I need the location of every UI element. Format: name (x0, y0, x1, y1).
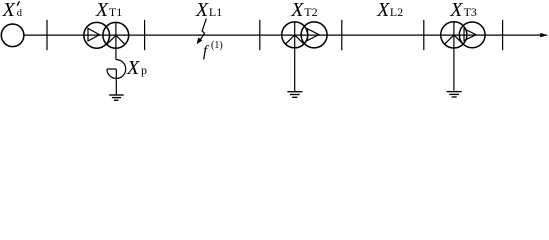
reactor Xp (107, 60, 126, 95)
fault arrow f(1) on line L1 (197, 19, 207, 45)
node: bus tick 5 (line L2 right end) (423, 20, 425, 50)
svg-text:L2: L2 (390, 5, 403, 19)
svg-text:f: f (203, 43, 210, 60)
label X_T2 (290, 0, 317, 21)
label X_L1 (195, 0, 222, 21)
label Xp (126, 57, 147, 79)
svg-text:X: X (195, 0, 209, 21)
node: bus tick 2 (T1 high side) (144, 20, 146, 50)
svg-text:p: p (141, 63, 147, 77)
transformer T1 (84, 22, 129, 59)
node: bus tick 4 (line L2 left end) (341, 20, 343, 50)
transformer T3 (441, 22, 485, 91)
node: bus tick 6 (T3 low side) (502, 20, 504, 50)
ground (T3 neutral) (447, 92, 462, 97)
transformer T2 (282, 22, 327, 91)
svg-text:X: X (95, 0, 109, 21)
svg-text:(1): (1) (211, 40, 223, 51)
label X_T1 (95, 0, 122, 21)
label X'd (2, 0, 23, 21)
svg-text:T2: T2 (304, 5, 317, 19)
svg-text:X: X (126, 57, 140, 79)
svg-text:T3: T3 (464, 5, 477, 19)
label X_T3 (449, 0, 477, 21)
svg-text:T1: T1 (109, 5, 122, 19)
svg-text:X: X (290, 0, 304, 21)
svg-text:X: X (2, 0, 16, 21)
node: bus tick 1 (generator bus) (46, 20, 48, 50)
svg-text:L1: L1 (209, 5, 222, 19)
node: bus tick 3 (T2 high side) (259, 20, 261, 50)
svg-text:X: X (449, 0, 463, 21)
ground (T2 neutral) (287, 92, 302, 98)
svg-text:d: d (17, 8, 23, 19)
label X_L2 (376, 0, 403, 21)
generator G (X'd) (1, 24, 24, 47)
arrow at right end of bus (540, 33, 548, 37)
ground (below reactor Xp) (109, 95, 123, 100)
wire main bus line (24, 34, 547, 36)
svg-text:X: X (376, 0, 390, 21)
label f(1) (203, 40, 223, 60)
